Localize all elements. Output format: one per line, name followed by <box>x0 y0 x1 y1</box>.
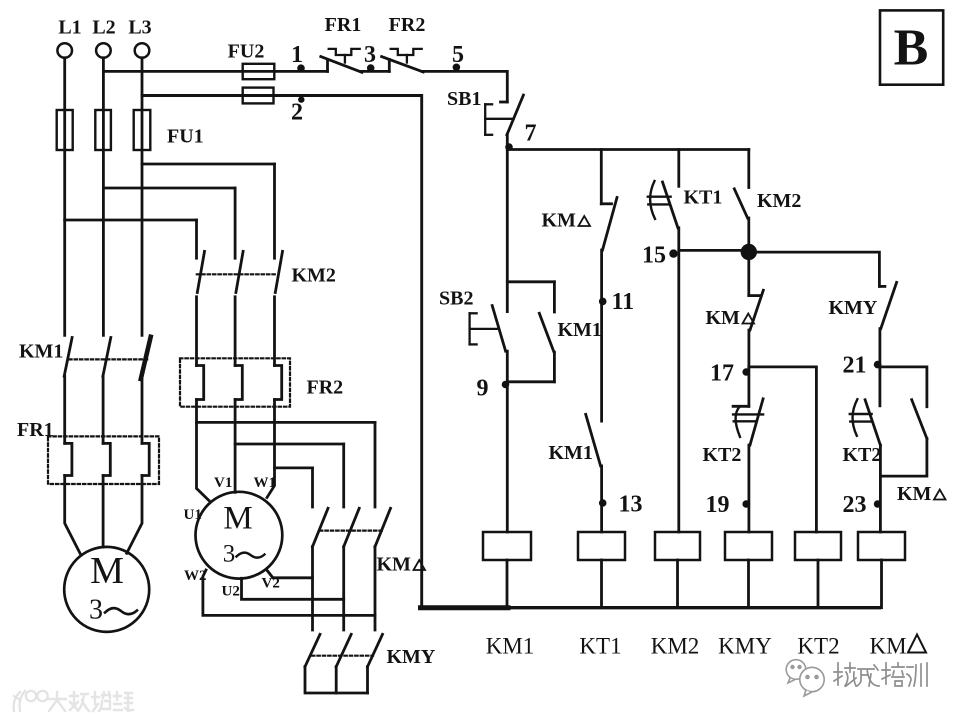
watermark right logo <box>786 660 824 696</box>
svg-text:FR1: FR1 <box>325 14 362 36</box>
node 2 <box>298 96 304 102</box>
wire bottom bar thick segment <box>421 605 509 610</box>
node 7 <box>505 143 513 151</box>
wire phase B to V1 and KM-delta <box>234 400 237 493</box>
junction node dot <box>741 244 757 260</box>
svg-text:U2: U2 <box>222 584 240 600</box>
wire branch 4 middle <box>748 330 751 406</box>
node 23 <box>874 500 882 508</box>
wire KMY star point <box>305 667 368 693</box>
wire crossover L1 <box>65 219 197 222</box>
wire branch 5 to coil KM-delta <box>879 445 882 532</box>
svg-text:KM2: KM2 <box>651 634 700 659</box>
svg-text:SB1: SB1 <box>447 88 481 110</box>
svg-text:KT2: KT2 <box>843 444 882 466</box>
svg-text:L3: L3 <box>128 17 151 39</box>
node 11 <box>599 298 607 306</box>
pushbutton SB2 <box>492 306 505 352</box>
thermal relay FR2 heaters <box>197 366 204 400</box>
svg-text:W1: W1 <box>254 475 277 491</box>
wire line 1 to SB1 corner <box>422 71 507 102</box>
node 19 <box>742 500 750 508</box>
node 21 <box>874 361 882 369</box>
svg-text:M: M <box>90 550 124 592</box>
svg-text:KM2: KM2 <box>757 190 801 212</box>
node 13 <box>599 499 607 507</box>
svg-text:1: 1 <box>291 42 303 68</box>
svg-text:11: 11 <box>612 289 635 315</box>
contact KMY interlock <box>879 285 885 288</box>
thermal relay FR1 box <box>48 436 159 484</box>
wire control top bar <box>507 148 749 151</box>
wire control line 1 <box>103 70 327 73</box>
wire junction to right branch <box>749 252 880 286</box>
svg-text:FR1: FR1 <box>17 419 54 441</box>
wire KM-delta parallel branch <box>881 367 927 407</box>
wire phase A to U1 and KM-delta <box>197 400 211 503</box>
svg-text:19: 19 <box>706 492 730 518</box>
svg-text:KM1: KM1 <box>486 634 535 659</box>
svg-text:17: 17 <box>710 361 734 387</box>
svg-text:KM: KM <box>897 483 932 505</box>
svg-text:L1: L1 <box>58 17 81 39</box>
svg-text:13: 13 <box>619 492 643 518</box>
wire phase C to W1 and KM-delta <box>267 400 275 498</box>
node 15 <box>679 249 749 252</box>
coil KT1 <box>578 532 625 560</box>
svg-text:9: 9 <box>477 376 489 402</box>
node 3 <box>367 64 375 72</box>
wire KT2 coil branch <box>749 367 817 532</box>
marker box B <box>880 10 943 84</box>
thermal relay FR2 box <box>180 358 290 406</box>
wire W2 link <box>203 570 375 615</box>
wire crossover L3 <box>142 163 275 166</box>
svg-text:KMY: KMY <box>387 646 436 668</box>
contactor KMY contacts <box>305 634 320 666</box>
wire KM1 bank to FR1 <box>63 376 66 443</box>
fuse FU1 element 2 <box>95 110 111 150</box>
contact KM1 aux NO <box>586 414 601 466</box>
svg-text:15: 15 <box>642 243 666 269</box>
svg-text:KT2: KT2 <box>703 444 742 466</box>
wire branch 4 top <box>747 150 750 188</box>
svg-text:SB2: SB2 <box>439 288 473 310</box>
coil KM-delta <box>858 532 905 560</box>
svg-text:KMY: KMY <box>718 634 772 659</box>
wire branch 2 top <box>600 150 603 204</box>
wire branch 5 middle <box>879 329 882 406</box>
wire junction down <box>747 252 750 296</box>
svg-text:FR2: FR2 <box>307 377 344 399</box>
wire V2 link <box>267 571 312 578</box>
svg-text:KT2: KT2 <box>797 634 839 659</box>
node 1 <box>297 64 305 72</box>
terminal L2 <box>96 43 111 58</box>
fuse FU2 element 2 <box>243 88 274 104</box>
svg-text:2: 2 <box>291 100 303 126</box>
wire phase L1 vertical <box>63 58 66 336</box>
motor M1 <box>64 547 149 632</box>
thermal relay FR1 heaters <box>65 443 72 475</box>
wire branch 2 to coil KT1 <box>600 466 603 532</box>
contactor KM-delta contacts <box>313 508 329 546</box>
wire KM2 bank feeds <box>273 164 276 258</box>
wire KM1 hold branch top <box>507 280 554 283</box>
wire crossover L2 <box>103 187 235 190</box>
svg-text:KM: KM <box>377 554 412 576</box>
wire control line 2 and right rail <box>142 96 422 608</box>
svg-text:3: 3 <box>364 42 376 68</box>
svg-text:7: 7 <box>525 121 537 147</box>
contact KT2 delayed close 2 <box>865 400 880 445</box>
fuse FU1 element 1 <box>57 110 73 150</box>
thermal contact FR2 <box>388 60 391 72</box>
svg-text:M: M <box>223 501 252 537</box>
motor M2 <box>196 492 283 579</box>
svg-text:21: 21 <box>843 353 867 379</box>
wire KM-delta bottoms <box>311 547 314 630</box>
wire branch 2 middle <box>600 250 603 421</box>
fuse FU2 element 1 <box>243 64 275 79</box>
svg-text:KMY: KMY <box>829 297 878 319</box>
svg-text:FR2: FR2 <box>389 14 426 36</box>
svg-text:U1: U1 <box>184 507 202 523</box>
contact KM2 aux NO <box>734 189 747 218</box>
terminal L3 <box>135 43 150 58</box>
svg-text:5: 5 <box>452 42 464 68</box>
wire phase L2 vertical <box>102 58 105 336</box>
contact KT2 delayed open <box>733 405 749 408</box>
node 9 <box>502 381 510 389</box>
svg-text:KM1: KM1 <box>19 341 63 363</box>
node 17 <box>742 368 750 376</box>
coil KMY <box>725 532 772 560</box>
wire motor M1 leads <box>65 476 80 554</box>
coil KT2 <box>795 532 841 560</box>
fuse FU1 element 3 <box>134 110 151 150</box>
svg-text:FU1: FU1 <box>167 126 204 148</box>
wire node 9 to coil KM1 <box>506 351 509 532</box>
svg-text:KT1: KT1 <box>684 187 723 209</box>
wire phase L3 vertical <box>141 58 144 336</box>
svg-text:3: 3 <box>89 595 103 626</box>
contact KT1 delayed close <box>663 182 678 228</box>
wire bottom bar <box>422 606 880 609</box>
wire U2 link <box>242 578 344 599</box>
node 5 <box>453 64 461 72</box>
wire node 3 segment <box>361 70 390 73</box>
thermal contact FR1 <box>326 60 329 72</box>
terminal L1 <box>57 43 72 58</box>
pushbutton SB1 <box>501 101 508 104</box>
contact KM-delta interlock 2 <box>749 294 760 297</box>
coil KM1 <box>483 532 531 560</box>
coil KM2 <box>655 532 700 560</box>
svg-text:KM: KM <box>542 210 577 232</box>
svg-text:KM1: KM1 <box>549 442 593 464</box>
contact KM1 hold <box>553 282 556 312</box>
wire branch 3 to coil KM2 <box>677 228 680 532</box>
svg-text:23: 23 <box>843 492 867 518</box>
svg-text:B: B <box>894 20 929 77</box>
wire branch 3 top <box>677 150 680 187</box>
contactor KM1 main contacts <box>64 338 72 377</box>
wire SB1 to SB2 <box>506 135 509 312</box>
svg-text:KM: KM <box>869 634 906 659</box>
wire branch 4 to coil KMY <box>748 445 751 532</box>
svg-text:V1: V1 <box>214 475 232 491</box>
contact KM-delta interlock <box>601 202 611 205</box>
svg-text:FU2: FU2 <box>228 41 265 63</box>
contactor KM2 main contacts <box>197 251 204 292</box>
watermark left logo <box>14 691 48 711</box>
svg-text:KM1: KM1 <box>558 319 602 341</box>
svg-text:KT1: KT1 <box>579 634 621 659</box>
svg-text:L2: L2 <box>92 17 115 39</box>
svg-text:3: 3 <box>223 541 236 568</box>
wire KM2 bank to FR2 <box>195 297 198 366</box>
svg-text:KM: KM <box>706 307 741 329</box>
svg-text:KM2: KM2 <box>292 265 336 287</box>
contact KM-delta NO parallel <box>912 400 927 439</box>
